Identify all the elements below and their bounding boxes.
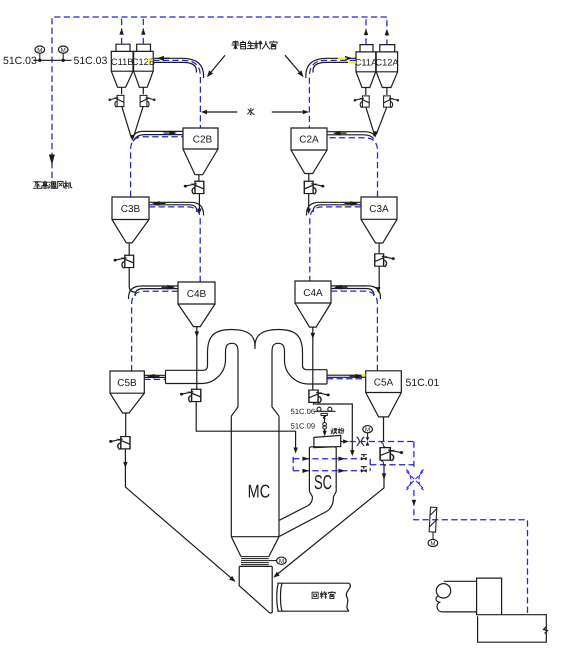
wire: meal V chute from C11A/C12A xyxy=(366,107,387,138)
wire: meal C4A drop through splash box xyxy=(311,327,316,390)
label 煤粉 xyxy=(331,428,344,434)
motor M under slide gate xyxy=(428,539,438,547)
valve under C3B xyxy=(114,255,134,268)
wire: meal C2A drop xyxy=(307,194,311,215)
svg-text:51C.03: 51C.03 xyxy=(74,55,108,67)
cyclone C3A xyxy=(361,197,397,254)
valve under C2A xyxy=(304,181,324,194)
valve under C2B xyxy=(184,181,204,194)
yellow mark near C3A xyxy=(344,206,351,208)
wire: C4A meal to coal circuit xyxy=(314,402,355,456)
svg-text:C2B: C2B xyxy=(193,135,213,146)
swan-neck duct left (MC riser to C4B/C5B splash box) xyxy=(166,330,256,417)
vessel SC xyxy=(309,447,336,497)
wire: water line right xyxy=(272,110,309,115)
duct C5B gas to C4B inlet (double line) xyxy=(129,285,179,299)
svg-text:C3A: C3A xyxy=(369,204,389,215)
svg-text:C11B: C11B xyxy=(111,57,134,67)
label 51C.03 left xyxy=(3,55,37,67)
gate valve on line B xyxy=(361,467,367,473)
svg-text:51C.03: 51C.03 xyxy=(3,55,37,67)
svg-text:C2A: C2A xyxy=(299,135,319,146)
label 51C.06 xyxy=(291,407,316,416)
MC outlet flange xyxy=(241,557,269,565)
label 51C.03 right xyxy=(74,55,108,67)
cyclone C4B xyxy=(178,282,215,327)
cyclone C12A xyxy=(375,45,399,95)
wire: top exhaust gas header (dashed) xyxy=(52,17,387,178)
venturi restrictor (blue) xyxy=(406,470,423,491)
valve under C12A xyxy=(384,96,399,108)
wire: gas C11A to header (dashed) xyxy=(364,17,369,45)
label 至高温风机 xyxy=(34,181,72,189)
valve under C11B xyxy=(108,95,123,107)
label 回转窑 xyxy=(312,592,335,599)
wire: C5A meal drop with flex joints xyxy=(381,443,386,448)
svg-text:51C.09: 51C.09 xyxy=(291,421,316,430)
valve under C5A xyxy=(380,448,403,461)
label water 水 xyxy=(248,108,255,114)
wire: jog connecting lines A-B-C (dashed) xyxy=(370,459,414,471)
wire: gas C12B to header (dashed) xyxy=(141,17,146,44)
wire: gas C4A to C3A (dashed) xyxy=(310,207,361,281)
duct C2B gas outlet to C12B (double line) xyxy=(153,56,203,128)
duct C4A gas to C3A inlet (double line) xyxy=(307,201,362,215)
duct C2A gas outlet to C11A (double line) xyxy=(306,56,356,128)
cyclone C4A xyxy=(295,281,331,327)
flex joint on line D xyxy=(357,437,365,446)
valve under C4B (at splash box) xyxy=(180,389,201,402)
cyclone C2A xyxy=(291,128,327,181)
motor M at kiln inlet xyxy=(277,557,287,565)
cyclone C11A xyxy=(355,45,378,95)
swan-neck duct right (MC riser to C4A/C5A splash box) xyxy=(255,330,327,417)
wire: meal V chute from C11B/C12B xyxy=(122,106,144,141)
wire: raw meal feed line right xyxy=(285,55,306,79)
svg-text:51C.06: 51C.06 xyxy=(291,407,316,416)
svg-text:C5A: C5A xyxy=(374,377,394,388)
cyclone C12B xyxy=(132,44,155,94)
valve under C5B xyxy=(109,437,130,450)
coal feed valve and rotameter xyxy=(323,416,327,437)
wire: coal line D (dashed) xyxy=(350,441,414,443)
motor M (left of 51C.03) xyxy=(35,46,45,54)
valve under C11A xyxy=(354,96,369,108)
wire: meal C3B drop xyxy=(129,268,135,293)
cyclone C3B xyxy=(112,197,149,255)
yellow mark near C12B xyxy=(148,59,154,61)
duct meal V to C2B inlet (double line) xyxy=(133,131,184,142)
wire: C5A meal chute to kiln inlet xyxy=(272,466,387,580)
coal bin 煤粉 xyxy=(314,435,341,447)
svg-text:C12A: C12A xyxy=(375,57,399,67)
SC outlet pipe to MC xyxy=(280,497,334,537)
node: 51C.03 feed manifold line xyxy=(34,53,72,62)
wire: gas C3A to C2A (dashed) xyxy=(327,138,378,197)
coal mill feeder (bottom right) xyxy=(436,578,502,615)
yellow marks near C11A xyxy=(338,58,356,62)
wire: gas C5B to C4B (dashed) xyxy=(132,291,178,371)
wire: gas C4B to C3B (dashed) xyxy=(149,207,200,282)
motorized gate on line D xyxy=(366,433,370,446)
wire: water line left xyxy=(201,110,237,115)
valve under C4A (at splash box) xyxy=(309,390,330,403)
vessel MC xyxy=(231,416,279,556)
gate valve on line A xyxy=(361,455,367,461)
wire: meal C4B drop through splash box xyxy=(195,327,200,390)
duct C5A gas to C4A inlet (double line) xyxy=(331,285,381,299)
svg-text:C3B: C3B xyxy=(121,204,141,215)
svg-text:MC: MC xyxy=(248,481,270,502)
valve under C3A xyxy=(375,254,395,267)
label 来自生料入窑 xyxy=(232,41,277,49)
wire: gas C3B to C2B (dashed) xyxy=(131,137,183,197)
duct meal V to C2A inlet (double line) xyxy=(327,131,375,139)
kiln inlet chamber xyxy=(239,566,272,613)
label 51C.01 xyxy=(406,377,440,389)
svg-text:51C.01: 51C.01 xyxy=(406,377,440,389)
flex joint under C5A valve xyxy=(381,461,386,466)
label 51C.09 xyxy=(291,421,316,430)
svg-text:C5B: C5B xyxy=(117,378,137,389)
cyclone C5B xyxy=(110,371,144,436)
wire: gas C5A to C4A (dashed) xyxy=(331,291,377,371)
motor M (right of 51C.03) xyxy=(58,46,68,54)
svg-text:C12B: C12B xyxy=(132,57,155,67)
duct C5B connection (double line) xyxy=(144,374,165,380)
wire: meal C3A drop xyxy=(376,266,381,293)
duct C5A connection (double line) xyxy=(327,374,366,379)
node: up arrow on C12A gas line xyxy=(385,29,390,35)
wire: gas C11B to header (dashed) xyxy=(119,17,124,44)
slide gate on horizontal dashed run xyxy=(429,507,437,539)
cyclone C5A xyxy=(366,371,402,442)
coal dosing dashed circuit left bracket xyxy=(292,457,294,471)
svg-text:SC: SC xyxy=(314,472,332,494)
instrument cluster on coal feed xyxy=(314,407,335,419)
wire: bin to line D xyxy=(341,439,349,443)
svg-text:C4A: C4A xyxy=(303,288,323,299)
node: down arrow on exhaust line to fan xyxy=(49,155,55,166)
wire: meal C2B drop xyxy=(197,194,201,215)
cyclone C2B xyxy=(183,128,218,181)
svg-text:C4B: C4B xyxy=(187,289,207,300)
rotary kiln 回转窑 xyxy=(277,583,351,611)
yellow mark near C5A xyxy=(362,374,366,376)
coal mill body (bottom right) xyxy=(478,615,548,643)
cyclone C11B xyxy=(111,44,134,94)
wire: coal line B (dashed) xyxy=(293,469,370,473)
motor M on line D valve xyxy=(363,426,373,434)
node: swan-neck cusp tail xyxy=(254,346,256,350)
wire: link to kiln drive motor xyxy=(269,560,277,562)
wire: coal line A (dashed) xyxy=(293,457,370,461)
wire: dashed riser to venturi xyxy=(412,442,528,615)
valve under C12B xyxy=(140,95,155,107)
wire: meal C5B long chute to kiln inlet xyxy=(123,449,237,584)
wire: C4B meal to coal circuit xyxy=(196,402,298,454)
duct C4B gas to C3B inlet (double line) xyxy=(149,201,204,215)
wire: raw meal feed line left xyxy=(205,55,225,79)
